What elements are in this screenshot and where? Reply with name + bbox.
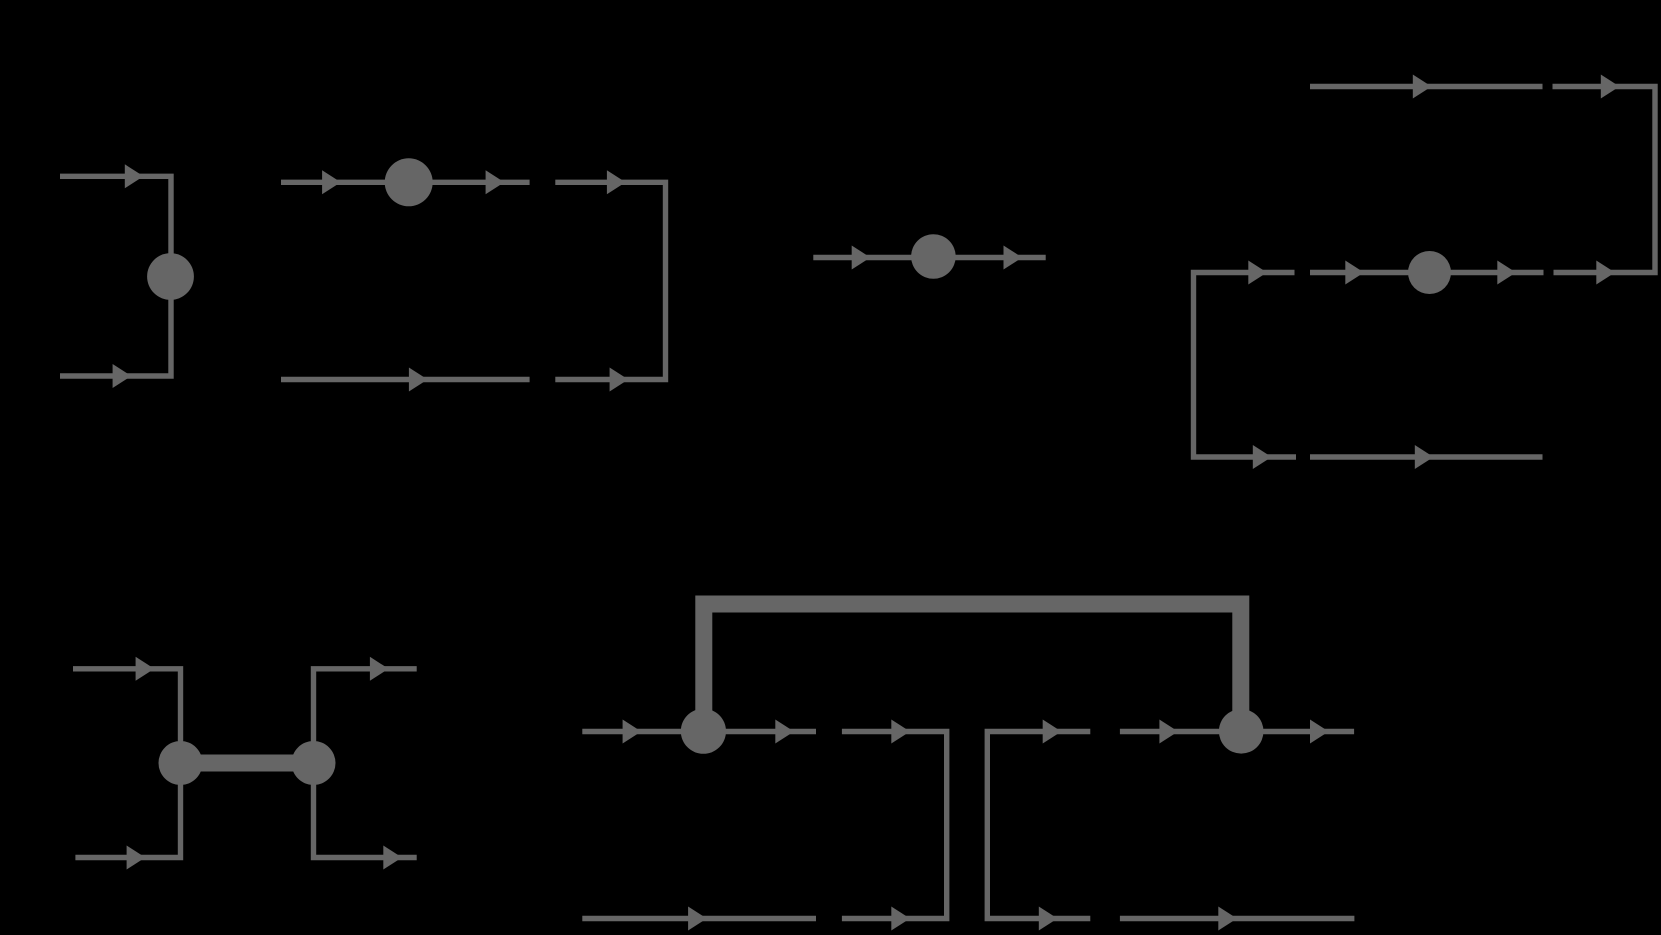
arrowhead: diagram-6 right bracket bottom <box>1039 907 1058 931</box>
arrowhead: diagram-4 top segment 2 <box>1601 75 1620 99</box>
arrowhead: diagram-4 bottom segment 2 <box>1415 445 1434 469</box>
wire: diagram-1 fermion line (top-in, vertical, bottom-in) <box>60 176 171 376</box>
arrowhead: diagram-4 top segment 1 <box>1413 75 1432 99</box>
arrowhead: diagram-2 lower-right <box>610 368 629 392</box>
vertex blob: diagram-6 right vertex <box>1219 709 1264 754</box>
wire: diagram-4 left hook (mid seg, left vertical, bottom seg) <box>1194 273 1297 458</box>
arrowhead: diagram-4 mid left segment <box>1248 261 1267 285</box>
arrowhead: diagram-2 upper-left first <box>322 170 341 194</box>
arrowhead: diagram-6 mid seg4 before right vertex <box>1159 720 1178 744</box>
arrowhead: diagram-6 left bracket bottom <box>891 907 910 931</box>
wire: diagram-2 right hook (upper seg, vertical, lower seg) <box>555 182 665 379</box>
vertex blob: diagram-1 interaction vertex <box>147 253 194 300</box>
vertex blob: diagram-5 right vertex <box>292 741 336 785</box>
wire: diagram-4 mid propagator with blob <box>1310 270 1544 275</box>
arrowhead: diagram-6 mid seg1 before left vertex <box>623 720 642 744</box>
wire: diagram-6 mid segment 1 (through left vertex) <box>582 729 816 734</box>
wire: diagram-4 bottom propagator segment 2 <box>1310 454 1543 459</box>
arrowhead: diagram-5 top-right outgoing <box>370 657 389 681</box>
wire: diagram-6 bottom segment 1 <box>582 916 816 921</box>
wire: diagram-3 dressed propagator <box>813 255 1045 260</box>
arrowhead: diagram-4 mid right segment <box>1596 261 1615 285</box>
wire: diagram-2 upper-left propagator <box>281 180 530 185</box>
wire: diagram-6 bottom segment 4 <box>1120 916 1355 921</box>
vertex blob: diagram-4 self-energy insertion <box>1408 251 1451 294</box>
vertex blob: diagram-3 self-energy <box>911 234 956 279</box>
arrowhead: diagram-6 bottom seg4 <box>1218 907 1237 931</box>
arrowhead: diagram-6 right bracket mid <box>1043 720 1062 744</box>
vertex blob: diagram-5 left vertex <box>159 741 203 785</box>
arrowhead: diagram-6 mid seg1 after left vertex <box>775 720 794 744</box>
vertex blob: diagram-2 self-energy insertion <box>385 158 433 206</box>
arrowhead: diagram-4 mid after blob <box>1497 261 1516 285</box>
interaction line: diagram-5 thick boson propagator <box>181 755 314 772</box>
arrowhead: diagram-5 top-left incoming <box>136 657 155 681</box>
wire: diagram-4 top-right hook (top seg, right vertical, mid seg) <box>1553 87 1656 273</box>
arrowhead: diagram-3 right <box>1004 246 1023 270</box>
wire: diagram-2 lower-left propagator <box>281 377 530 382</box>
arrowhead: diagram-4 bottom left segment <box>1253 445 1272 469</box>
arrowhead: diagram-2 lower-left <box>409 368 428 392</box>
arrowhead: diagram-6 mid seg4 after right vertex <box>1310 720 1329 744</box>
arrowhead: diagram-5 bottom-left incoming <box>127 846 146 870</box>
arrowhead: diagram-1 top incoming <box>125 164 144 188</box>
interaction line: diagram-6 thick overhead boson arch <box>704 604 1241 731</box>
wire: diagram-6 mid segment 4 (through right vertex) <box>1120 729 1354 734</box>
wire: diagram-4 top propagator segment 1 <box>1310 84 1543 89</box>
wire: diagram-6 left bracket (mid seg, vertical, bottom seg) <box>842 732 947 919</box>
arrowhead: diagram-6 bottom seg1 <box>688 907 707 931</box>
vertex blob: diagram-6 left vertex <box>681 709 726 754</box>
arrowhead: diagram-1 bottom incoming <box>113 364 132 388</box>
arrowhead: diagram-2 upper-right <box>607 170 626 194</box>
wire: diagram-5 left fermion line (top-in, vertical, bottom-in) <box>73 669 181 858</box>
wire: diagram-6 right bracket (mid seg, vertical, bottom seg) <box>987 732 1090 919</box>
arrowhead: diagram-2 upper-left second <box>486 170 505 194</box>
arrowhead: diagram-4 mid before blob <box>1345 261 1364 285</box>
arrowhead: diagram-6 left bracket mid <box>891 720 910 744</box>
wire: diagram-5 right fermion line (top-out, vertical, bottom-out) <box>314 669 417 858</box>
arrowhead: diagram-3 left <box>852 246 871 270</box>
arrowhead: diagram-5 bottom-right outgoing <box>383 846 402 870</box>
